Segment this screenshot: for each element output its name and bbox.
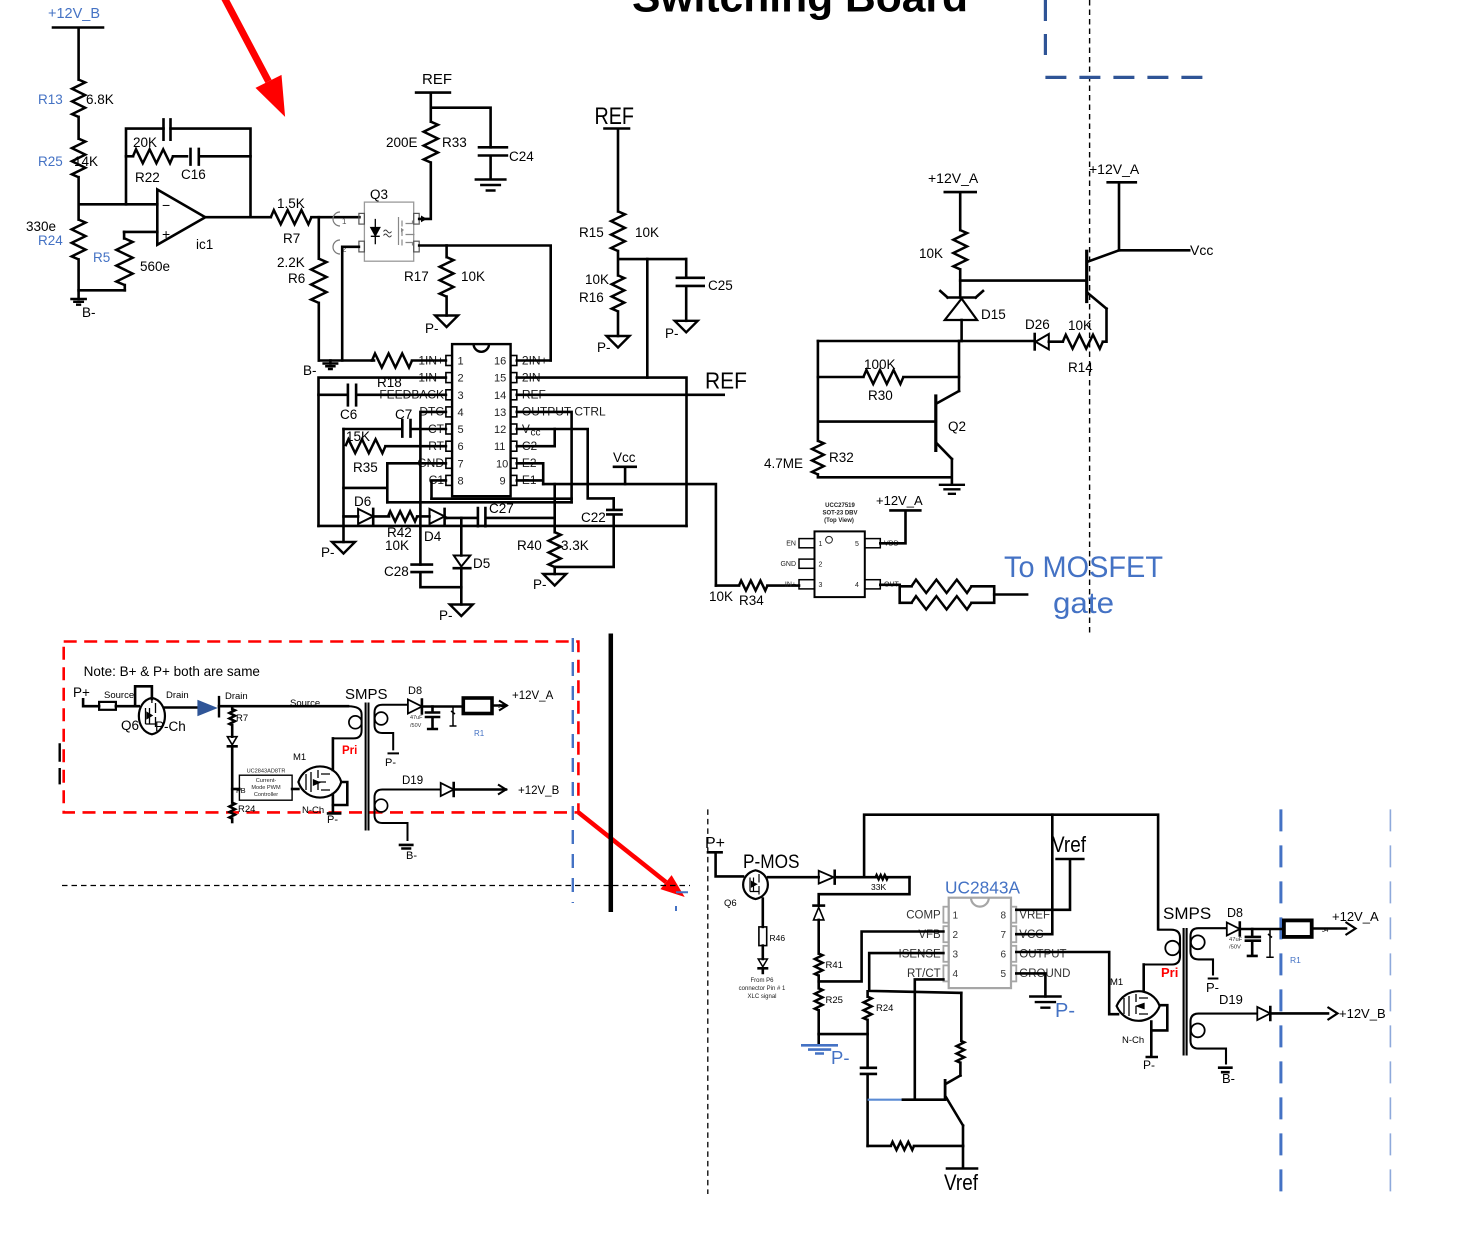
svg-text:+12V_A: +12V_A (512, 690, 554, 702)
transformer T1 bottom secondary (enlarged) (1191, 1014, 1258, 1065)
IC U1 pin boxes left (446, 356, 452, 486)
svg-text:Vref: Vref (1052, 832, 1087, 857)
svg-text:/50V: /50V (410, 723, 422, 729)
svg-text:REF: REF (705, 368, 747, 394)
blue dashed divider x=572 (572, 638, 574, 903)
svg-text:P-: P- (831, 1047, 850, 1068)
svg-text:2: 2 (953, 930, 959, 941)
svg-text:R25: R25 (826, 995, 843, 1006)
ground P- (R16) (597, 336, 630, 355)
svg-text:4: 4 (953, 969, 959, 980)
resistor R7 (small, vert) (229, 708, 248, 737)
wire Q6 to diode (768, 876, 819, 879)
resistor R33 200E (386, 122, 467, 163)
svg-text:P-: P- (597, 340, 611, 355)
wire M1 body loop (333, 782, 347, 805)
transformer T1 core (366, 703, 369, 831)
IC U1 pin numbers (458, 356, 509, 488)
ground (C24) (475, 180, 507, 191)
svg-text:47uF: 47uF (410, 715, 423, 721)
svg-text:XLC signal: XLC signal (747, 994, 776, 1000)
red dashed box (64, 642, 579, 813)
svg-text:C16: C16 (181, 167, 206, 182)
svg-text:100K: 100K (864, 357, 896, 372)
svg-text:2: 2 (819, 562, 823, 569)
svg-text:IN+: IN+ (785, 581, 796, 588)
resistor R7 1.5K (271, 196, 312, 246)
svg-text:3.3K: 3.3K (561, 538, 589, 553)
wire pin15 2IN- to right loop edge (517, 378, 687, 526)
svg-text:+12V_A: +12V_A (1332, 909, 1379, 924)
net Vcc output (1119, 242, 1213, 258)
svg-text:VREF: VREF (1019, 910, 1050, 922)
svg-text:D19: D19 (402, 775, 423, 787)
svg-text:Current-: Current- (256, 778, 277, 784)
transistor (error amp) (945, 1076, 963, 1146)
svg-text:10K: 10K (709, 589, 733, 604)
svg-text:P-: P- (321, 545, 335, 560)
svg-text:R34: R34 (739, 593, 764, 608)
svg-text:SMPS: SMPS (1163, 904, 1211, 923)
svg-text:Q3: Q3 (370, 187, 388, 202)
wire M1 source (1147, 1022, 1157, 1058)
net Vref (top) (1016, 832, 1086, 910)
svg-text:C22: C22 (581, 510, 606, 525)
svg-text:D8: D8 (408, 685, 422, 697)
wire E-line to R34 (543, 484, 716, 585)
svg-text:5: 5 (1001, 969, 1007, 980)
svg-text:P-: P- (533, 577, 547, 592)
resistor R5 560e (93, 232, 170, 290)
wire R42 to D4 (417, 515, 429, 518)
svg-text:3: 3 (819, 582, 823, 589)
resistor R32 4.7ME (764, 441, 854, 475)
svg-text:2: 2 (458, 373, 464, 385)
resistor (collector) (957, 993, 965, 1076)
wire RT/CT (915, 979, 944, 1099)
resistor R24 (small, vert) (229, 803, 255, 822)
svg-text:5: 5 (458, 424, 464, 436)
svg-text:UC2843AD8TR: UC2843AD8TR (247, 769, 286, 775)
fuse R1 (463, 698, 492, 738)
net Vcc (stub) (613, 450, 636, 484)
wire to Q6 (116, 686, 152, 706)
diode (R7 column, down) (227, 737, 237, 803)
zener D15 (940, 291, 1005, 341)
svg-text:Pri: Pri (1161, 965, 1178, 980)
wire junction row (618, 251, 686, 275)
svg-text:R15: R15 (579, 225, 604, 240)
wire Q6 drain (165, 706, 197, 709)
wire GND pin7 (344, 463, 446, 502)
wire VCC to top loop (1016, 815, 1052, 935)
diode D8 (408, 685, 463, 714)
diode (R41 column, up) (814, 906, 824, 954)
capacitor 47uF/50V (enlarged) (1229, 929, 1260, 956)
svg-text:P-MOS: P-MOS (743, 851, 800, 873)
svg-text:R22: R22 (135, 170, 160, 185)
IC U3 body (949, 898, 1011, 988)
svg-text:6: 6 (458, 441, 464, 453)
blue dashed corner (top-right) (1045, 0, 1213, 77)
svg-text:REF: REF (422, 71, 452, 88)
resistor R40 3.3K (517, 532, 589, 574)
wire zener junction row (818, 340, 1034, 343)
svg-text:Note: B+ & P+ both are same: Note: B+ & P+ both are same (84, 664, 260, 679)
svg-text:15: 15 (494, 373, 506, 385)
red arrow (top) (224, 0, 285, 117)
svg-text:10K: 10K (635, 225, 659, 240)
IC U1 TL494 body (452, 344, 511, 496)
ground P- (blue) (801, 1034, 850, 1068)
svg-text:+12V_B: +12V_B (518, 785, 560, 797)
wire pin12 Vcc (517, 429, 614, 498)
svg-text:Q6: Q6 (724, 898, 737, 909)
svg-text:C25: C25 (708, 278, 733, 293)
svg-text:C28: C28 (384, 564, 409, 579)
svg-text:D8: D8 (1227, 906, 1243, 920)
svg-text:ISENSE: ISENSE (899, 949, 942, 961)
svg-text:3: 3 (458, 390, 464, 402)
diode D8 (enlarged) (1227, 906, 1284, 936)
svg-text:Q6: Q6 (121, 718, 139, 733)
svg-text:1.5K: 1.5K (277, 196, 305, 211)
svg-text:+12V_B: +12V_B (48, 6, 100, 22)
resistor R41 (815, 954, 843, 989)
svg-text:C6: C6 (340, 407, 357, 422)
svg-text:OUTPUT: OUTPUT (1019, 949, 1066, 961)
wire pin9 E1 (517, 479, 543, 482)
op-amp ic1 (124, 190, 213, 253)
fuse R1 (enlarged) (1284, 920, 1312, 965)
connector ticks (59, 743, 61, 784)
svg-text:Vcc: Vcc (613, 450, 636, 465)
wire M1 drain to Pri (332, 738, 335, 770)
net REF (large, mid) (595, 103, 635, 211)
svg-text:B-: B- (1222, 1071, 1235, 1086)
svg-text:REF: REF (595, 103, 635, 130)
svg-text:4.7ME: 4.7ME (764, 456, 803, 471)
svg-text:M1: M1 (293, 752, 306, 763)
wire base row (960, 279, 1086, 282)
MOSFET M1 N-Ch (292, 766, 341, 816)
resistor R46 column (739, 899, 786, 1000)
svg-text:1: 1 (819, 541, 823, 548)
capacitor 47uF/50V (410, 707, 439, 730)
net +12V_A (UCC) (876, 493, 923, 543)
wire to Q3 (311, 216, 359, 219)
svg-text:R5: R5 (93, 250, 110, 265)
resistor R24 (enlarged) (864, 991, 894, 1068)
resistor R42 10K (385, 511, 417, 553)
svg-text:10: 10 (496, 458, 508, 470)
wire pin4 DTC down (420, 412, 446, 565)
wire OUTPUT to M1 gate (1016, 952, 1118, 1014)
svg-text:P-: P- (425, 321, 439, 336)
svg-text:D4: D4 (424, 529, 442, 544)
diode D5 (454, 518, 490, 605)
svg-text:16: 16 (494, 356, 506, 368)
black solid section divider bar (609, 634, 614, 913)
resistor R14 10K (1063, 309, 1107, 375)
svg-text:P-: P- (327, 814, 338, 826)
svg-text:P+: P+ (705, 835, 725, 852)
svg-text:8: 8 (458, 475, 464, 487)
label To MOSFET gate (1004, 551, 1163, 620)
svg-text:D15: D15 (981, 307, 1006, 322)
black dashed divider (horizontal, mid-page) (62, 885, 690, 887)
svg-text:R35: R35 (353, 460, 378, 475)
svg-text:R40: R40 (517, 538, 542, 553)
svg-text:R46: R46 (770, 933, 786, 943)
svg-text:COMP: COMP (906, 910, 941, 922)
svg-text:GND: GND (780, 561, 796, 568)
svg-text:R1: R1 (1290, 955, 1301, 965)
svg-text:R13: R13 (38, 92, 63, 107)
svg-text:Source: Source (290, 698, 320, 709)
wire CT branch down (342, 429, 345, 542)
ground B- (enlarged) (1219, 1068, 1235, 1086)
ground P- (D5) (439, 605, 473, 624)
svg-text:10K: 10K (1068, 318, 1092, 333)
svg-text:200E: 200E (386, 135, 418, 150)
svg-text:7: 7 (458, 458, 464, 470)
svg-text:R24: R24 (38, 233, 63, 248)
capacitor C25 (677, 259, 733, 321)
svg-text:gate: gate (1053, 587, 1114, 620)
svg-text:+12V_A: +12V_A (1089, 161, 1140, 177)
optocoupler Q3 (333, 187, 419, 261)
svg-text:10K: 10K (385, 538, 409, 553)
resistor R18 (372, 354, 446, 391)
net +12V_B (48, 6, 103, 80)
ground P- (R17) (425, 316, 458, 337)
wire R34 to UCC27519 (767, 584, 799, 587)
svg-text:1: 1 (458, 356, 464, 368)
svg-text:Vref: Vref (944, 1170, 979, 1195)
resistor R22 20K (126, 135, 187, 185)
wire loop bottom edge (319, 525, 687, 528)
svg-text:B-: B- (406, 850, 417, 862)
wire to C24 (431, 108, 491, 148)
diode D26 (1025, 317, 1063, 349)
svg-text:R33: R33 (442, 135, 467, 150)
blue dashed divider (bottom-right outer) (1389, 809, 1391, 1194)
IC U2 pin boxes (799, 539, 880, 589)
svg-text:Drain: Drain (166, 690, 189, 701)
wire to R34 (716, 584, 739, 587)
svg-text:33K: 33K (871, 882, 886, 892)
transformer T1 secondary bottom coil (375, 790, 441, 842)
net +12V_A (output) (492, 690, 554, 711)
transformer T1 top secondary (enlarged) (1191, 928, 1227, 978)
capacitor (top feedback) (164, 119, 171, 139)
wire D15 node down to Q2 collector (958, 341, 961, 391)
svg-text:R25: R25 (38, 154, 63, 169)
net +12V_A (left) (928, 170, 979, 230)
svg-text:FB: FB (236, 786, 246, 795)
wire M1 body loop (1151, 1005, 1167, 1030)
svg-text:Pri: Pri (342, 745, 357, 757)
svg-text:R30: R30 (868, 388, 893, 403)
svg-text:M1: M1 (1110, 977, 1123, 988)
net +12V_A (output, enlarged) (1312, 909, 1379, 935)
svg-text:R32: R32 (829, 450, 854, 465)
diode D19 (441, 783, 506, 796)
svg-text:560e: 560e (140, 259, 170, 274)
resistor R30 100K (818, 357, 959, 403)
transformer T1 primary coil (enlarged) (1144, 930, 1180, 965)
svg-text:Vcc: Vcc (1190, 242, 1213, 258)
wire B- rail (319, 359, 372, 362)
svg-text:R24: R24 (876, 1003, 893, 1014)
ground B- (near R18) (303, 361, 338, 379)
resistor R13 6.8K (38, 80, 114, 117)
svg-text:P+: P+ (73, 685, 90, 700)
wire pin13 OUTPUT CTRL down (517, 412, 572, 502)
wire (77, 117, 80, 139)
resistor R16 10K (579, 272, 624, 336)
svg-text:P-: P- (1143, 1058, 1155, 1072)
svg-text:ic1: ic1 (196, 237, 213, 252)
svg-text:+: + (162, 226, 170, 242)
svg-text:P-Ch: P-Ch (155, 719, 186, 734)
wire riser to top loop (864, 815, 1158, 930)
IC U3 pin numbers (953, 910, 1007, 980)
svg-text:R41: R41 (826, 960, 843, 971)
wire feedback loop (126, 129, 251, 218)
svg-text:J4: J4 (1322, 928, 1329, 934)
resistor 10K (pullup) (919, 230, 967, 297)
svg-text:UC2843A: UC2843A (945, 878, 1020, 898)
svg-text:R7: R7 (236, 713, 248, 724)
svg-text:P-: P- (1055, 1000, 1075, 1022)
wire Q3 out pin1 to R33 (419, 163, 431, 223)
wire Q3 pin4 long run to pin16 (419, 246, 551, 361)
svg-text:8: 8 (1001, 910, 1007, 921)
wire op-amp output (205, 216, 270, 219)
MOSFET Q6 P-Ch (121, 698, 186, 735)
diode (blue) (197, 691, 247, 718)
svg-text:+12V_A: +12V_A (876, 493, 923, 508)
svg-text:B-: B- (82, 305, 96, 320)
net +12V_A (right) (1089, 161, 1140, 250)
diode D4 (424, 509, 446, 544)
wire pin14 REF line (517, 393, 724, 396)
svg-text:7: 7 (1001, 930, 1007, 941)
resistor 33K (871, 875, 910, 892)
ground B- (sec bottom) (400, 845, 417, 862)
svg-text:(Top View): (Top View) (824, 518, 854, 524)
IC U2 body (815, 531, 865, 597)
wire ISENSE (869, 953, 961, 993)
black dashed divider (vertical, right-top) (1089, 0, 1091, 635)
svg-text:−: − (162, 197, 170, 213)
svg-text:C27: C27 (489, 501, 514, 516)
capacitor C16 (181, 149, 251, 182)
svg-text:connector Pin # 1: connector Pin # 1 (739, 986, 786, 992)
svg-text:Switching Board: Switching Board (632, 0, 968, 21)
svg-text:R7: R7 (283, 231, 300, 246)
red arrow (to bottom-right blow-up) (578, 812, 684, 897)
wire M1 drain up to Pri (1142, 965, 1145, 991)
svg-text:Controller: Controller (254, 792, 278, 798)
wire to pin15 (646, 259, 649, 378)
capacitor C7 (pin5 CT) (344, 407, 446, 437)
svg-text:12: 12 (494, 424, 506, 436)
fuse (input) (99, 702, 116, 710)
wire pin16 2IN+ (517, 359, 551, 362)
svg-text:N-Ch: N-Ch (1122, 1035, 1144, 1046)
svg-text:R14: R14 (1068, 360, 1093, 375)
ground P- (C25) (665, 321, 698, 341)
svg-text:B-: B- (303, 363, 317, 378)
node R6 branch (317, 217, 320, 259)
svg-text:+12V_A: +12V_A (928, 170, 979, 186)
capacitor C24 (479, 147, 534, 179)
resistor pair (gate) (900, 580, 1027, 610)
capacitor (R24 bottom) (861, 1068, 876, 1146)
IC U2 UCC27519 title (822, 503, 857, 524)
svg-text:13: 13 (494, 407, 506, 419)
resistor R35 15K (345, 429, 446, 475)
ground P- (CT branch) (321, 542, 355, 560)
resistor R6 2.2K (277, 255, 327, 303)
wire pin12-pin11 loop (517, 429, 555, 446)
IC U1 pin names (379, 353, 606, 487)
svg-text:1: 1 (953, 910, 959, 921)
transformer T1 secondary top coil (375, 705, 408, 754)
svg-text:5: 5 (855, 541, 859, 548)
wire OUT (880, 583, 899, 586)
svg-text:47uF: 47uF (1229, 937, 1243, 943)
net Vref (bottom) (944, 1146, 979, 1195)
svg-text:J4: J4 (498, 704, 504, 710)
svg-text:R1: R1 (474, 729, 485, 738)
MOSFET Q6 (enlarged view) (724, 870, 768, 909)
transformer T1 primary coil (333, 706, 362, 738)
svg-text:Mode PWM: Mode PWM (251, 785, 281, 791)
svg-text:P-: P- (385, 757, 396, 769)
svg-text:14: 14 (494, 390, 506, 402)
svg-text:Q2: Q2 (948, 419, 966, 434)
svg-text:14K: 14K (74, 154, 98, 169)
transistor Q1 (Vcc follower) (1087, 250, 1119, 309)
wire Q2 base row (818, 341, 936, 441)
IC U2 pin names (780, 541, 899, 589)
capacitor C22 (555, 498, 622, 567)
svg-text:9: 9 (500, 475, 506, 487)
blue dashed mark near arrow tip (676, 892, 688, 911)
svg-text:SOT-23 DBV: SOT-23 DBV (822, 511, 857, 517)
svg-text:D26: D26 (1025, 317, 1050, 332)
svg-text:P-: P- (1206, 980, 1219, 995)
net REF (top) (416, 71, 452, 122)
resistor R25 14K (38, 139, 98, 178)
svg-text:1: 1 (342, 217, 347, 226)
svg-text:R6: R6 (288, 271, 305, 286)
wire VFB (819, 932, 944, 982)
wire pin8 C1 (432, 480, 446, 498)
resistor R15 10K (579, 211, 659, 251)
svg-text:D6: D6 (354, 494, 371, 509)
wire R32 bottom to emitter (818, 459, 952, 484)
black dashed divider (bottom-right section left edge) (707, 809, 709, 1194)
wire 33K to R41 column (819, 877, 910, 905)
svg-text:EN: EN (786, 541, 796, 548)
svg-text:/50V: /50V (1229, 945, 1241, 951)
svg-text:UCC27519: UCC27519 (825, 503, 855, 509)
